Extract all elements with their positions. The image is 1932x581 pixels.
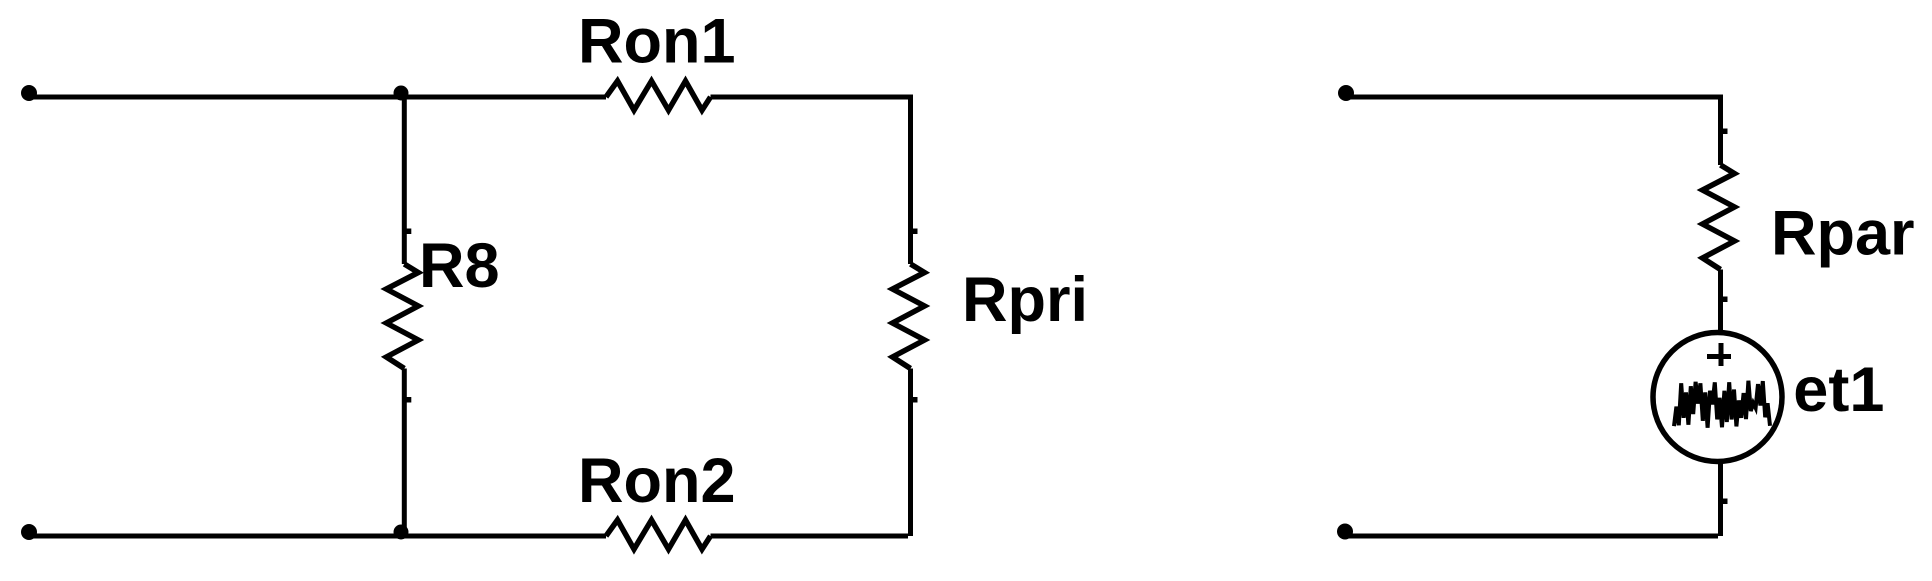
source et1 plus sign — [1707, 343, 1731, 366]
node dot top junction — [394, 86, 409, 101]
svg-text:Rpri: Rpri — [962, 265, 1088, 335]
svg-text:R8: R8 — [419, 231, 500, 301]
resistor Rpar — [1703, 165, 1735, 270]
wire right-circuit top with corner — [1346, 95, 1721, 166]
wire R8 branch upper — [402, 97, 407, 264]
node dot bottom junction — [394, 525, 409, 540]
node dot left-top terminal — [21, 85, 37, 101]
node dot left-bottom terminal — [21, 524, 37, 540]
svg-text:Ron2: Ron2 — [578, 446, 736, 516]
pin tick et1 bottom — [1722, 499, 1728, 505]
pin tick et1 top — [1722, 297, 1728, 303]
wire bottom-left horizontal — [29, 534, 606, 539]
resistor Ron2 — [606, 520, 711, 549]
wire right vertical lower — [908, 369, 913, 537]
pin tick Rpri top — [912, 229, 918, 235]
wire R8 branch lower — [402, 369, 407, 537]
resistor R8 — [386, 264, 418, 369]
resistor Rpri — [893, 264, 925, 369]
wire right-circuit bottom — [1345, 534, 1718, 539]
wire bottom-right horizontal — [711, 534, 909, 539]
svg-text:Rpar: Rpar — [1771, 199, 1915, 269]
resistor Ron1 — [606, 81, 711, 110]
node dot right-circuit top terminal — [1338, 85, 1354, 101]
pin tick R8 bottom — [406, 397, 412, 403]
node dot right-circuit bottom terminal — [1337, 524, 1353, 540]
source et1 noise waveform — [1674, 381, 1770, 428]
wire source et1 to bottom — [1718, 462, 1723, 537]
source et1 circle — [1653, 333, 1782, 462]
wire Rpar to source et1 — [1718, 270, 1723, 334]
wire top-right horizontal with corner — [711, 95, 911, 265]
pin tick Rpar top — [1722, 129, 1728, 135]
svg-text:Ron1: Ron1 — [578, 7, 736, 77]
wire top-left horizontal — [29, 95, 606, 100]
pin tick R8 top — [406, 229, 412, 235]
pin tick Rpri bottom — [912, 397, 918, 403]
svg-text:et1: et1 — [1793, 355, 1884, 425]
